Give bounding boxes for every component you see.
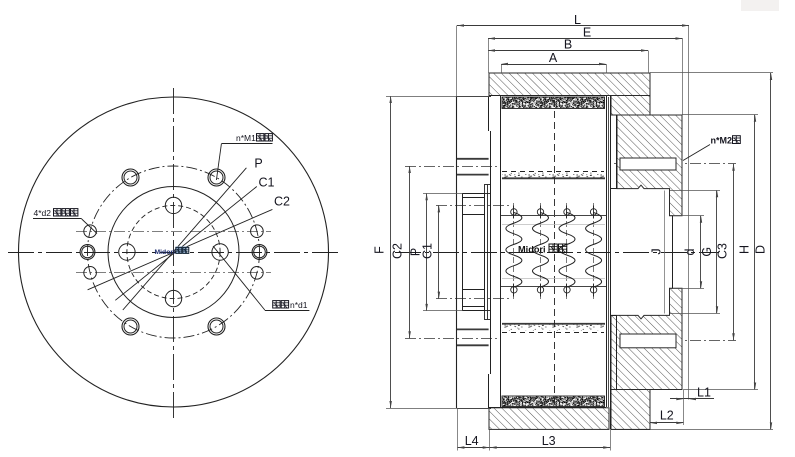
svg-text:E: E [583,26,591,40]
svg-text:L: L [574,13,581,27]
svg-text:4*d2: 4*d2 [34,208,52,218]
svg-text:L4: L4 [465,434,479,448]
svg-text:C2: C2 [274,195,290,209]
svg-text:F: F [373,246,387,254]
svg-text:A: A [549,51,558,65]
svg-text:C3: C3 [715,243,729,259]
svg-text:n*M1: n*M1 [236,133,256,143]
svg-text:P: P [254,157,262,171]
svg-text:L3: L3 [542,434,556,448]
svg-text:J: J [650,248,664,254]
svg-text:C1: C1 [421,243,435,259]
svg-text:C2: C2 [391,243,405,259]
svg-text:n*M2: n*M2 [711,136,733,146]
svg-text:L1: L1 [697,386,711,400]
svg-text:L2: L2 [660,409,674,423]
svg-text:d: d [683,248,697,255]
svg-text:C1: C1 [259,176,275,190]
svg-text:D: D [754,245,768,254]
svg-text:Midori: Midori [518,244,546,254]
svg-text:B: B [564,38,572,52]
svg-text:G: G [700,247,714,257]
svg-text:Midori: Midori [155,249,175,256]
svg-text:H: H [738,245,752,254]
svg-text:n*d1: n*d1 [290,300,308,310]
